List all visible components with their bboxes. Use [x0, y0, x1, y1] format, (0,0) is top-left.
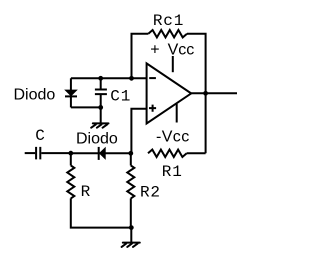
op-amp +Vcc stub	[172, 56, 174, 72]
resistor R1	[148, 150, 187, 157]
diode D2 (horizontal, pointing left)	[99, 147, 106, 160]
svg-text:C: C	[35, 127, 45, 145]
resistor R2	[127, 166, 134, 199]
wire C to node A	[41, 152, 71, 154]
svg-text:R2: R2	[140, 184, 161, 202]
resistor R	[67, 166, 74, 199]
capacitor C1 top lead	[100, 78, 102, 89]
wire node A to diode D2 and node B	[71, 152, 131, 154]
ground under C1	[91, 123, 108, 127]
svg-text:+: +	[150, 42, 159, 59]
op-amp -Vcc stub	[176, 104, 178, 123]
diode D1 (vertical, pointing down)	[65, 90, 77, 96]
svg-text:Rc1: Rc1	[153, 12, 184, 30]
node A junction	[68, 151, 73, 156]
wire ground stub under C1	[100, 107, 102, 122]
svg-text:R: R	[81, 183, 91, 201]
svg-text:R1: R1	[162, 163, 183, 181]
svg-text:Diodo: Diodo	[14, 86, 56, 103]
wire R1 right lead	[187, 152, 206, 154]
resistor R2 top lead	[130, 153, 132, 165]
wire input stub	[25, 152, 36, 154]
op-amp minus sign	[149, 77, 156, 79]
op-amp plus sign	[149, 105, 156, 112]
wire non-inverting input	[131, 109, 146, 154]
resistor R top lead	[70, 153, 72, 165]
svg-text:Vcc: Vcc	[168, 42, 195, 59]
wire bottom rail of diode/C1 loop	[71, 106, 101, 108]
resistor Rc1	[148, 30, 187, 37]
wire output	[191, 92, 237, 94]
node inverting input junction	[129, 76, 134, 81]
capacitor C1 bottom lead	[100, 94, 102, 107]
capacitor C1 plates	[95, 90, 107, 95]
svg-text:Diodo: Diodo	[76, 130, 118, 147]
wire diode D1 branch left vertical	[70, 78, 72, 107]
wire R2 bottom lead	[130, 198, 132, 227]
wire Rc1 left branch	[132, 34, 149, 79]
capacitor C plates	[36, 147, 40, 160]
op-amp U1 triangle	[147, 63, 192, 123]
ground bottom	[122, 243, 140, 247]
node output junction	[203, 91, 208, 96]
svg-text:C1: C1	[110, 87, 131, 105]
wire R bottom lead and bottom rail	[71, 198, 132, 227]
wire ground stub bottom	[130, 228, 132, 243]
svg-text:-Vcc: -Vcc	[156, 129, 190, 146]
node B junction	[128, 151, 133, 156]
wire Rc1 right branch down to output node	[187, 34, 206, 154]
node bottom ground junction	[129, 225, 134, 230]
node C1 bottom junction	[98, 105, 103, 110]
wire inverting input rail	[71, 77, 147, 79]
node C1 top junction	[98, 76, 103, 81]
